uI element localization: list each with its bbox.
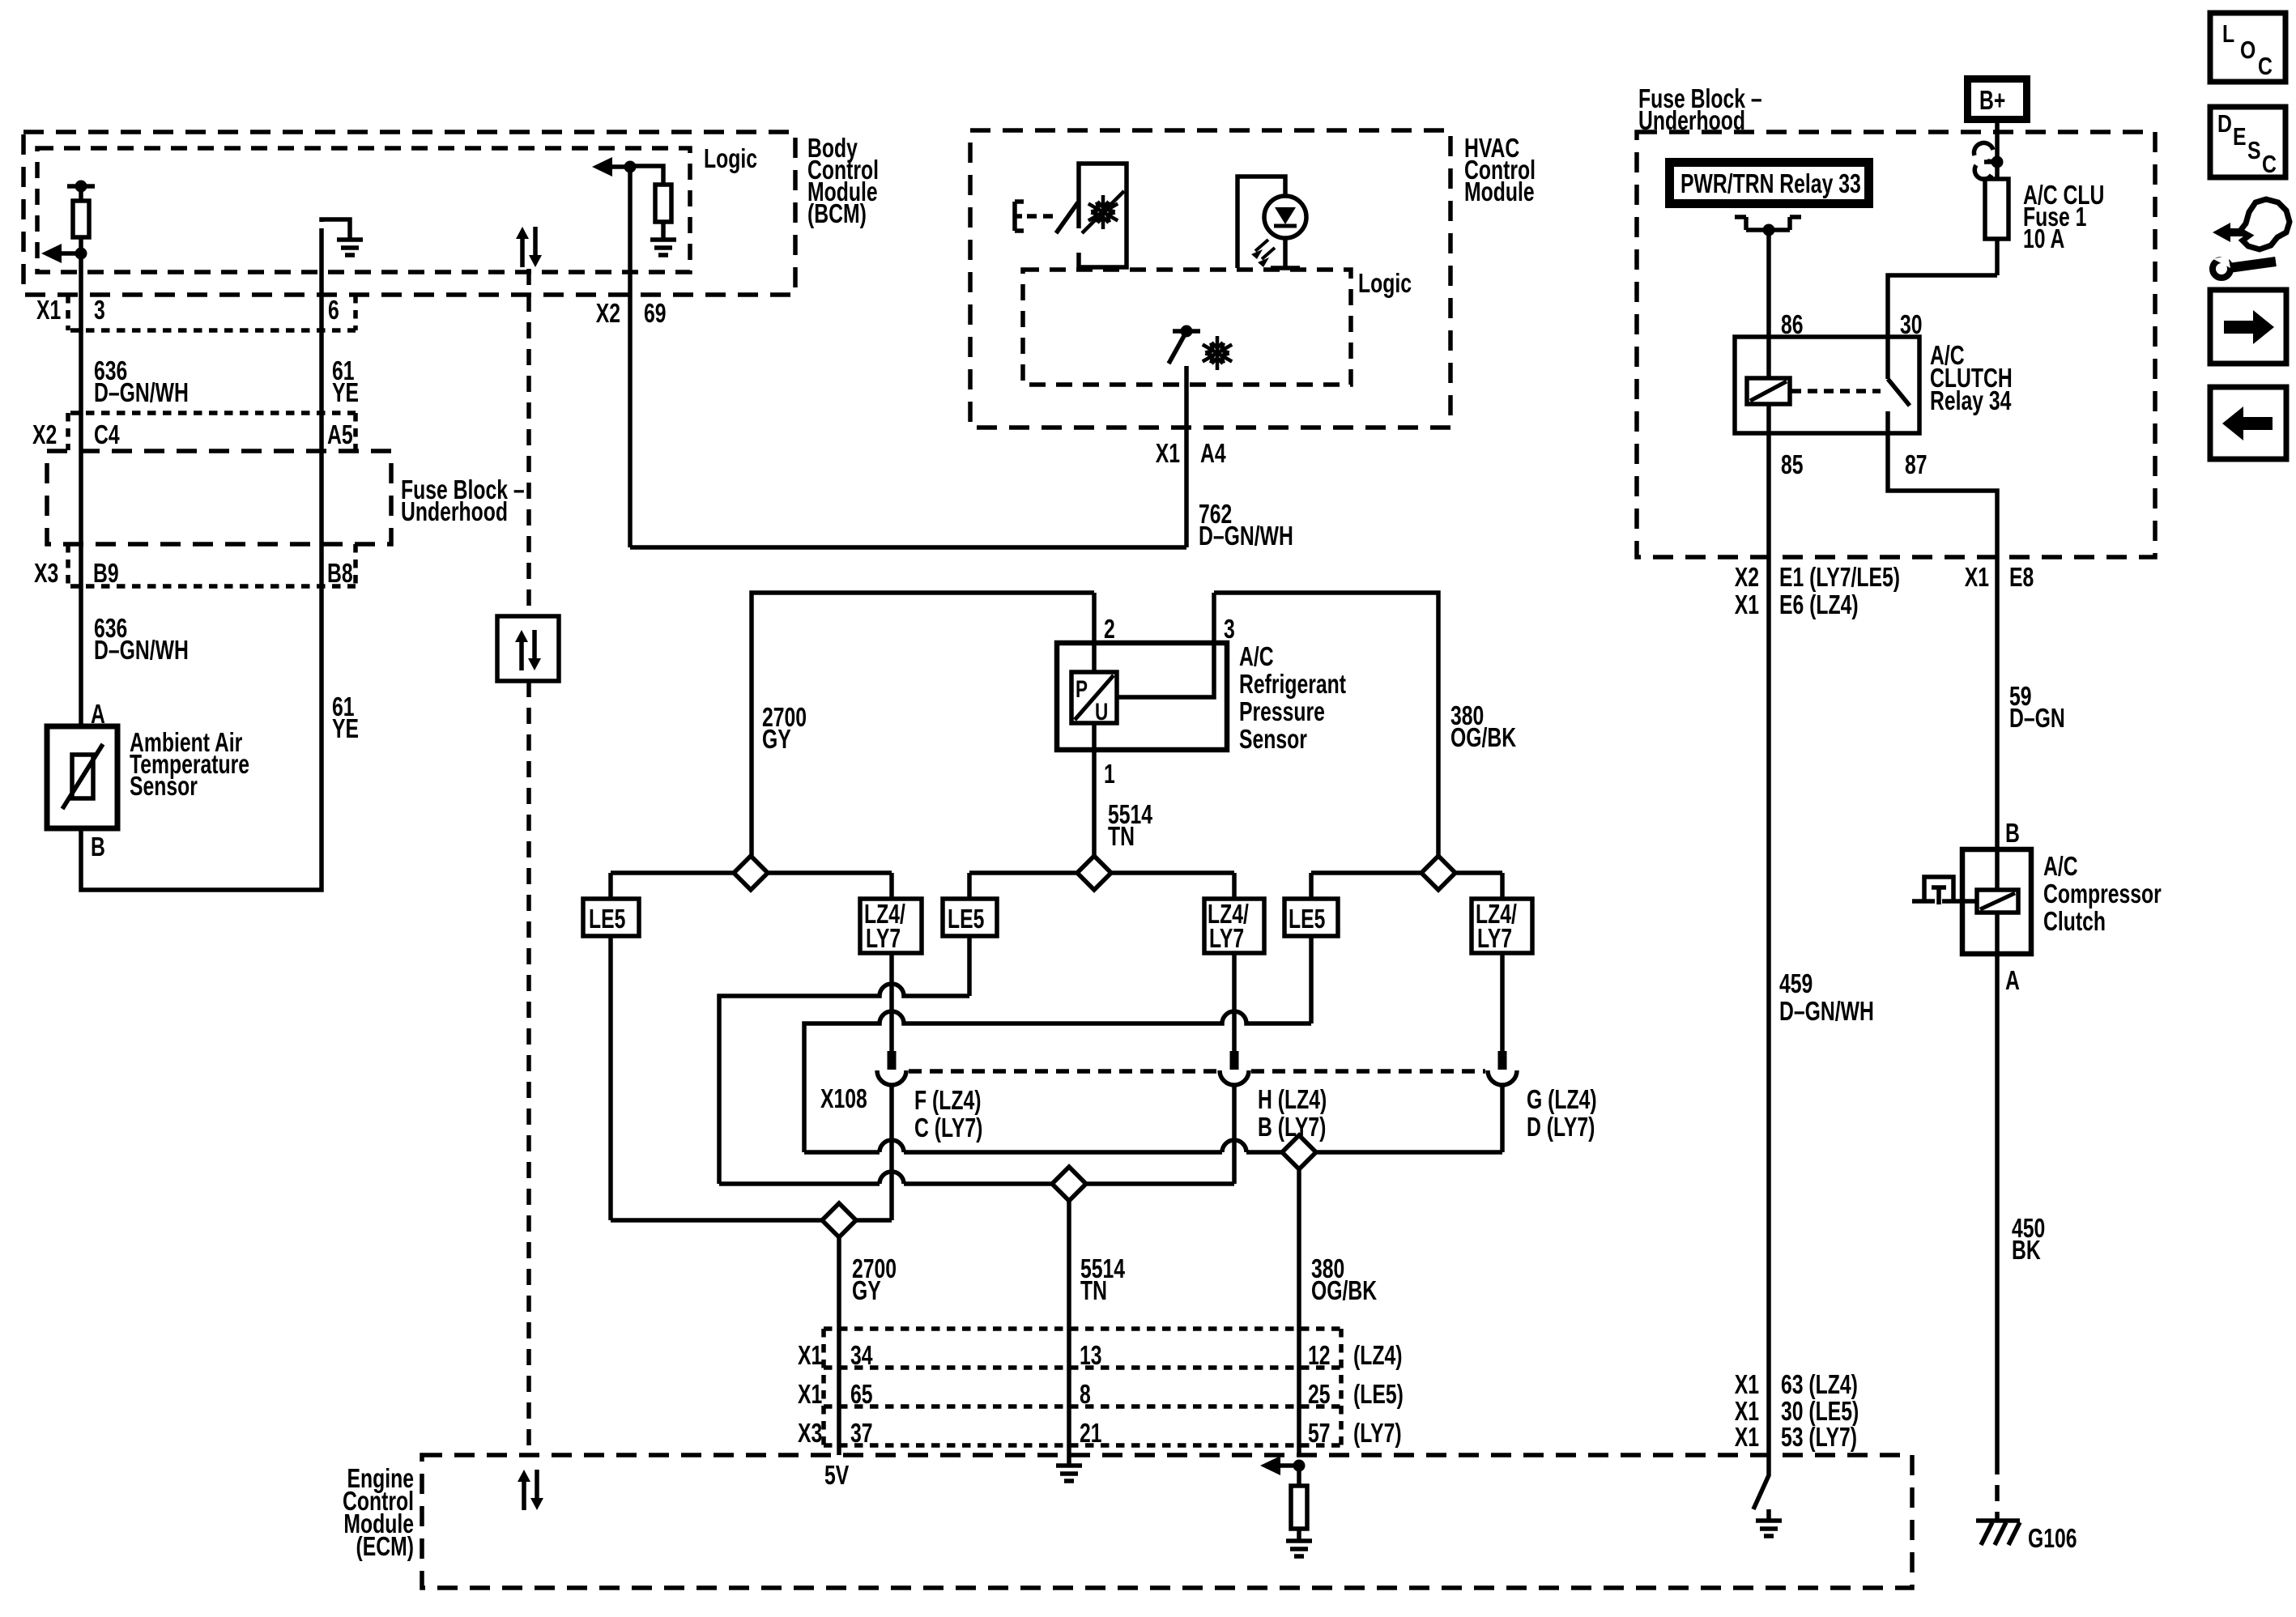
label X1 30 row (1735, 1398, 1859, 1427)
switch 2 node bar and dot (1173, 326, 1200, 338)
svg-text:YE: YE (332, 379, 359, 408)
svg-text:X108: X108 (820, 1085, 867, 1114)
ECM connector rows dotted grid (824, 1329, 1341, 1445)
label G106 (2028, 1525, 2077, 1554)
label Fuse Block - Underhood (right) (1638, 85, 1762, 136)
lower bus B2 (5514) (719, 1172, 1234, 1184)
label X1 E6 row (1735, 591, 1859, 620)
splice diamond S3 (380) (1421, 856, 1455, 890)
svg-text:S: S (2247, 136, 2261, 164)
wire 5514 TN to ECM (1067, 1201, 1071, 1455)
svg-text:C: C (2258, 52, 2273, 79)
wire below X108 F/C (889, 1085, 894, 1220)
wire LE5 no.1 down to splice bus B1 (608, 936, 613, 1220)
label 459 D-GN/WH (1779, 970, 1874, 1027)
connector row X2 C4|A5 dotted (68, 413, 356, 450)
ground (ECM 380) (1286, 1541, 1312, 1556)
svg-text:2: 2 (1104, 615, 1115, 645)
label 5514 TN upper (1108, 801, 1153, 852)
label X1 E8 row (1965, 564, 2034, 593)
label 85 87 (1781, 451, 1928, 480)
svg-text:25: 25 (1308, 1381, 1331, 1410)
svg-text:3: 3 (1224, 615, 1235, 645)
ground (ECM 5514 return) (1056, 1455, 1082, 1481)
label pin B (2005, 819, 2020, 849)
connector row X1 3|6 dotted (68, 295, 356, 330)
wire fuse to relay pin 30 (1888, 275, 1997, 337)
label Engine Control Module (ECM) (343, 1465, 414, 1562)
wire BCM X2-69 down (628, 167, 633, 547)
svg-text:(LE5): (LE5) (1353, 1381, 1404, 1410)
wire 380 OG/BK to ECM (1297, 1169, 1301, 1455)
svg-text:X3: X3 (798, 1419, 822, 1449)
svg-text:8: 8 (1080, 1381, 1091, 1410)
Fuse Block Underhood (left) dashed box (47, 451, 391, 544)
label 61 YE upper (332, 357, 359, 408)
label X1 row (36, 296, 339, 326)
svg-text:(LY7): (LY7) (1353, 1419, 1402, 1449)
label X2 E1 row (1735, 564, 1900, 593)
label 2700 GY upper (762, 704, 807, 755)
svg-text:Refrigerant: Refrigerant (1239, 670, 1346, 700)
svg-text:69: 69 (644, 300, 667, 329)
svg-text:B (LY7): B (LY7) (1258, 1113, 1326, 1143)
Engine Control Module (ECM) dashed box (422, 1455, 1912, 1588)
svg-text:D–GN/WH: D–GN/WH (1199, 522, 1293, 551)
svg-text:B: B (2005, 819, 2020, 849)
upper splice bus 2700 (611, 870, 892, 875)
A/C CLUTCH Relay 34 box (1735, 337, 1919, 433)
wire HVAC X1-A4 down (1184, 366, 1189, 547)
connector bracket below relay 33 (1735, 217, 1801, 236)
wire pin 85 down to ECM (1766, 433, 1771, 1455)
label X3 row (34, 560, 353, 589)
label pin 2 (1104, 615, 1115, 645)
label 450 BK (2012, 1215, 2045, 1266)
label 762 D-GN/WH (1199, 500, 1293, 551)
label Logic (BCM) (704, 145, 757, 174)
tag LE5 no.2 (943, 899, 997, 936)
svg-text:D: D (2217, 109, 2232, 137)
wire compressor pin A down (1995, 954, 2000, 1458)
ECM 380 node arrow (1260, 1456, 1306, 1475)
label X1 A4 row (1156, 440, 1227, 469)
label Ambient Air Temperature Sensor (130, 729, 249, 802)
svg-text:X1: X1 (1965, 564, 1989, 593)
splice diamond S2 (5514) (1077, 856, 1111, 890)
label ECM row 3 (798, 1419, 1402, 1449)
ECM up/down serial-data arrows (518, 1470, 543, 1510)
wire relay33 to coil pin 86 (1766, 230, 1771, 337)
ground hook (BCM pin6) (322, 219, 363, 255)
svg-text:LY7: LY7 (1209, 925, 1244, 954)
Ambient Air Temperature Sensor box (47, 726, 117, 828)
snowflake 2 (1199, 336, 1234, 370)
svg-text:LE5: LE5 (589, 905, 625, 934)
snowflake crossed (A/C off) (1082, 191, 1124, 233)
wire BCM pin3 down to ambient sensor pin A (79, 253, 83, 726)
svg-text:Relay 34: Relay 34 (1930, 387, 2012, 416)
svg-text:D–GN/WH: D–GN/WH (94, 636, 189, 666)
svg-text:34: 34 (850, 1342, 873, 1371)
label 86 (1781, 311, 1804, 340)
fuse A/C CLU Fuse 1 (1985, 179, 2008, 239)
resistor R-BCM1 with supply bar (67, 181, 95, 254)
label 636 D-GN/WH upper (94, 357, 189, 408)
label ECM row 1 (798, 1342, 1402, 1371)
svg-text:G (LZ4): G (LZ4) (1527, 1086, 1597, 1115)
svg-text:LE5: LE5 (1289, 905, 1325, 934)
BCM Logic inner dashed box (37, 148, 690, 272)
icon arrow left box (2210, 387, 2286, 459)
wire below X108 G/D (1500, 1085, 1505, 1152)
svg-text:A4: A4 (1200, 440, 1226, 469)
label X2 row (32, 421, 353, 450)
svg-text:X1: X1 (1735, 1423, 1759, 1453)
serial data two-way arrows box (497, 616, 559, 681)
svg-text:E: E (2233, 122, 2247, 150)
label pin B (91, 833, 105, 862)
X108 female cup F/C (877, 1070, 906, 1085)
clutch mechanical linkage symbol (1912, 877, 1977, 904)
splice diamond B1 (822, 1203, 856, 1237)
svg-text:O: O (2240, 36, 2256, 63)
svg-text:OG/BK: OG/BK (1311, 1277, 1377, 1306)
arrow into BCM logic node X2-69 (592, 157, 637, 177)
label X108 (820, 1085, 867, 1114)
svg-text:TN: TN (1108, 823, 1135, 852)
label A/C Compressor Clutch (2043, 853, 2162, 937)
wire LE5 no.2 crossover (line A) (719, 936, 969, 1184)
switch lever (A/C request) (1056, 202, 1078, 233)
svg-text:B+: B+ (1979, 87, 2005, 116)
label pin 3 (1224, 615, 1235, 645)
svg-text:X1: X1 (36, 296, 61, 326)
label 380 OG/BK lower (1311, 1255, 1377, 1306)
X108 dashed connector line (909, 1069, 1485, 1074)
label pin A (91, 700, 105, 730)
svg-text:X3: X3 (34, 560, 58, 589)
svg-text:Logic: Logic (1358, 270, 1412, 299)
label 2700 GY lower (852, 1255, 897, 1306)
X108 male pin H/B (1230, 1051, 1239, 1070)
relay 34 coil (1747, 337, 1790, 433)
label pin A (2005, 967, 2020, 996)
label ECM row 2 (798, 1381, 1404, 1410)
compressor clutch coil (1977, 849, 2018, 954)
svg-text:X1: X1 (1156, 440, 1180, 469)
wire LZ4/LY7 no.3 down to X108 pin G/D (1500, 953, 1505, 1051)
connector row X3 B9|B8 dotted (68, 544, 356, 586)
svg-text:X1: X1 (1735, 591, 1759, 620)
svg-text:D (LY7): D (LY7) (1527, 1113, 1595, 1143)
icon hand double arrow (2213, 223, 2264, 242)
splice diamond B2 (1052, 1167, 1086, 1201)
svg-text:Pressure: Pressure (1239, 698, 1325, 727)
svg-text:(BCM): (BCM) (807, 200, 867, 229)
svg-text:GY: GY (762, 726, 791, 755)
pin 3 wire (1117, 593, 1214, 697)
stub wires to engine variant tags (611, 873, 1502, 899)
lower bus B1 (2700) (611, 1218, 892, 1223)
svg-text:6: 6 (328, 296, 339, 326)
wire sensor top bus left (2700 side) (752, 593, 1094, 858)
label X1 53 row (1735, 1423, 1857, 1453)
tag LE5 no.3 (1284, 899, 1338, 936)
svg-text:G106: G106 (2028, 1525, 2077, 1554)
svg-text:E8: E8 (2009, 564, 2034, 593)
svg-text:5V: 5V (824, 1462, 850, 1491)
P/U transducer symbol (1071, 672, 1117, 726)
B+ block (1964, 75, 2030, 123)
arrow into BCM pin3 node (41, 244, 87, 263)
svg-text:GY: GY (852, 1277, 881, 1306)
svg-text:53 (LY7): 53 (LY7) (1781, 1423, 1857, 1453)
svg-text:C4: C4 (94, 421, 120, 450)
svg-text:X2: X2 (32, 421, 57, 450)
wire B+ down to fuse (1995, 123, 2000, 275)
svg-text:63 (LZ4): 63 (LZ4) (1781, 1371, 1858, 1400)
label A/C Refrigerant Pressure Sensor (1239, 643, 1346, 755)
icon arrow right box (2210, 290, 2286, 364)
svg-text:37: 37 (850, 1419, 873, 1449)
wire sensor top bus right (380 side) (1214, 593, 1438, 858)
BCM up/down serial-data arrows (516, 227, 542, 267)
dashed data line vertical (526, 269, 531, 1455)
svg-text:LY7: LY7 (1477, 925, 1512, 954)
icon hand outline (2240, 199, 2290, 249)
svg-text:D–GN/WH: D–GN/WH (1779, 998, 1874, 1027)
resistor R-BCM2 (630, 166, 671, 238)
wire LZ4/LY7 no.2 down to X108 pin H/B (1232, 953, 1237, 1051)
svg-text:BK: BK (2012, 1236, 2041, 1266)
svg-text:87: 87 (1905, 451, 1928, 480)
chassis ground G106 (1976, 1521, 2020, 1545)
splice diamond S1 (2700) (734, 856, 768, 890)
svg-text:P: P (1076, 675, 1088, 703)
svg-text:D–GN: D–GN (2009, 704, 2065, 734)
svg-text:TN: TN (1080, 1277, 1107, 1306)
svg-text:B: B (91, 833, 105, 862)
svg-text:X1: X1 (1735, 1398, 1759, 1427)
label 59 D-GN (2009, 683, 2065, 734)
tag LE5 no.1 (583, 899, 639, 936)
X108 male pin G/D (1498, 1051, 1507, 1070)
svg-text:X2: X2 (596, 300, 620, 329)
LED indicator (1264, 196, 1306, 268)
wire pin 87 to compressor clutch (1888, 433, 1997, 849)
svg-text:Underhood: Underhood (401, 498, 508, 527)
ground (ECM 459) (1756, 1509, 1782, 1536)
svg-text:85: 85 (1781, 451, 1804, 480)
svg-text:Compressor: Compressor (2043, 880, 2162, 909)
svg-text:57: 57 (1308, 1419, 1331, 1449)
LED light arrows (1251, 240, 1275, 267)
svg-text:C: C (2262, 150, 2277, 177)
svg-text:Sensor: Sensor (130, 772, 198, 802)
dashed link to switch (1027, 214, 1054, 219)
label 380 OG/BK upper (1450, 702, 1516, 753)
label A/C CLU Fuse 1 10 A (2023, 181, 2104, 254)
svg-text:10 A: 10 A (2023, 225, 2064, 254)
svg-text:H (LZ4): H (LZ4) (1258, 1086, 1327, 1115)
wire 450 dashed segment (1995, 1458, 2000, 1519)
relay 34 switch (1888, 337, 1910, 433)
label 5V (824, 1462, 850, 1491)
switch 2 lever (1169, 334, 1185, 364)
svg-text:E1 (LY7/LE5): E1 (LY7/LE5) (1779, 564, 1900, 593)
ECM internal switch on 459 (1753, 1455, 1769, 1509)
tag LZ4/LY7 no.3 (1472, 899, 1532, 954)
svg-text:LY7: LY7 (866, 925, 901, 954)
svg-text:A/C: A/C (2043, 853, 2078, 882)
label X2 69 row (596, 300, 667, 329)
ground (BCM internal) (650, 240, 676, 255)
svg-text:Underhood: Underhood (1638, 107, 1745, 136)
label Fuse Block - Underhood (left) (401, 476, 525, 527)
wire LZ4/LY7 no.1 down to X108 pin F/C (889, 953, 894, 1051)
icon wrench (2213, 255, 2276, 278)
splice diamond B3 (1282, 1135, 1316, 1169)
svg-text:YE: YE (332, 715, 359, 744)
svg-text:U: U (1095, 698, 1108, 726)
svg-text:(ECM): (ECM) (356, 1533, 414, 1562)
label F (LZ4) C (LY7) (914, 1087, 982, 1143)
connector E stub (1015, 202, 1024, 231)
svg-text:F (LZ4): F (LZ4) (914, 1087, 981, 1116)
svg-text:1: 1 (1104, 760, 1115, 789)
pin 2 wire (1092, 593, 1097, 672)
A/C Refrigerant Pressure Sensor box (1057, 643, 1227, 750)
inline connector hook (1974, 143, 2003, 179)
tag LZ4/LY7 no.2 (1204, 899, 1264, 954)
svg-text:3: 3 (94, 296, 105, 326)
LED hook wire (1237, 177, 1285, 268)
label X1 63 row (1735, 1371, 1858, 1400)
label 61 YE lower (332, 693, 359, 744)
svg-text:A: A (2005, 967, 2020, 996)
label G (LZ4) D (LY7) (1527, 1086, 1597, 1143)
svg-text:B9: B9 (93, 560, 119, 589)
wire below X108 H/B (1232, 1085, 1237, 1184)
label HVAC Control Module (1464, 134, 1536, 207)
svg-text:B8: B8 (327, 560, 353, 589)
icon DESC box (2210, 107, 2285, 178)
svg-text:X1: X1 (798, 1342, 822, 1371)
svg-text:65: 65 (850, 1381, 873, 1410)
svg-text:E6 (LZ4): E6 (LZ4) (1779, 591, 1859, 620)
svg-text:13: 13 (1080, 1342, 1102, 1371)
svg-text:(LZ4): (LZ4) (1353, 1342, 1402, 1371)
svg-text:X1: X1 (1735, 1371, 1759, 1400)
svg-text:C (LY7): C (LY7) (914, 1114, 982, 1143)
svg-text:12: 12 (1308, 1342, 1331, 1371)
svg-text:LE5: LE5 (948, 905, 984, 934)
svg-text:X1: X1 (798, 1381, 822, 1410)
label H (LZ4) B (LY7) (1258, 1086, 1327, 1143)
svg-text:21: 21 (1080, 1419, 1102, 1449)
svg-text:X2: X2 (1735, 564, 1759, 593)
svg-text:L: L (2222, 19, 2234, 47)
switch box (open frame) (1079, 164, 1127, 267)
X108 male pin F/C (888, 1051, 897, 1070)
HVAC Control Module outer dashed box (970, 130, 1450, 428)
label Body Control Module (BCM) (807, 134, 879, 229)
tag LZ4/LY7 no.1 (860, 899, 922, 954)
label A/C CLUTCH Relay 34 (1930, 342, 2013, 416)
icon LOC box (2210, 13, 2285, 82)
HVAC Logic inner dashed box (1023, 270, 1351, 385)
label Logic (HVAC) (1358, 270, 1412, 299)
PWR/TRN Relay 33 block (1665, 158, 1873, 208)
X108 female cup H/B (1220, 1070, 1249, 1085)
upper splice bus 380 (1311, 870, 1502, 875)
svg-text:Sensor: Sensor (1239, 726, 1307, 755)
lower bus B3 (380) (804, 1140, 1502, 1152)
svg-text:D–GN/WH: D–GN/WH (94, 379, 189, 408)
pin 1 wire (1092, 723, 1097, 858)
svg-text:PWR/TRN Relay 33: PWR/TRN Relay 33 (1680, 170, 1861, 199)
X108 female cup G/D (1488, 1070, 1517, 1085)
upper splice bus 5514 (969, 870, 1234, 875)
svg-text:Clutch: Clutch (2043, 908, 2106, 937)
Body Control Module (BCM) outer dashed box (23, 132, 795, 295)
label 5514 TN lower (1080, 1255, 1126, 1306)
label pin 1 (1104, 760, 1115, 789)
label 636 D-GN/WH lower (94, 615, 189, 666)
svg-text:459: 459 (1779, 970, 1813, 999)
svg-text:OG/BK: OG/BK (1450, 724, 1516, 753)
svg-text:A5: A5 (327, 421, 353, 450)
resistor (ECM pulldown) (1291, 1466, 1307, 1539)
wire 762 horizontal run (630, 545, 1186, 550)
svg-text:Logic: Logic (704, 145, 757, 174)
svg-text:A/C: A/C (1239, 643, 1274, 672)
wire LE5 no.3 crossover (line B) (804, 936, 1311, 1152)
svg-text:Module: Module (1464, 178, 1535, 207)
wire sensor loop bottom (81, 228, 322, 890)
thermistor symbol (62, 744, 103, 809)
A/C Compressor Clutch box (1962, 849, 2031, 954)
relay 34 dashed actuator link (1791, 389, 1881, 394)
wire 2700 GY to ECM (837, 1237, 841, 1455)
svg-text:30 (LE5): 30 (LE5) (1781, 1398, 1859, 1427)
Fuse Block Underhood (right) dashed box (1637, 132, 2155, 557)
label 30 (1900, 311, 1923, 340)
